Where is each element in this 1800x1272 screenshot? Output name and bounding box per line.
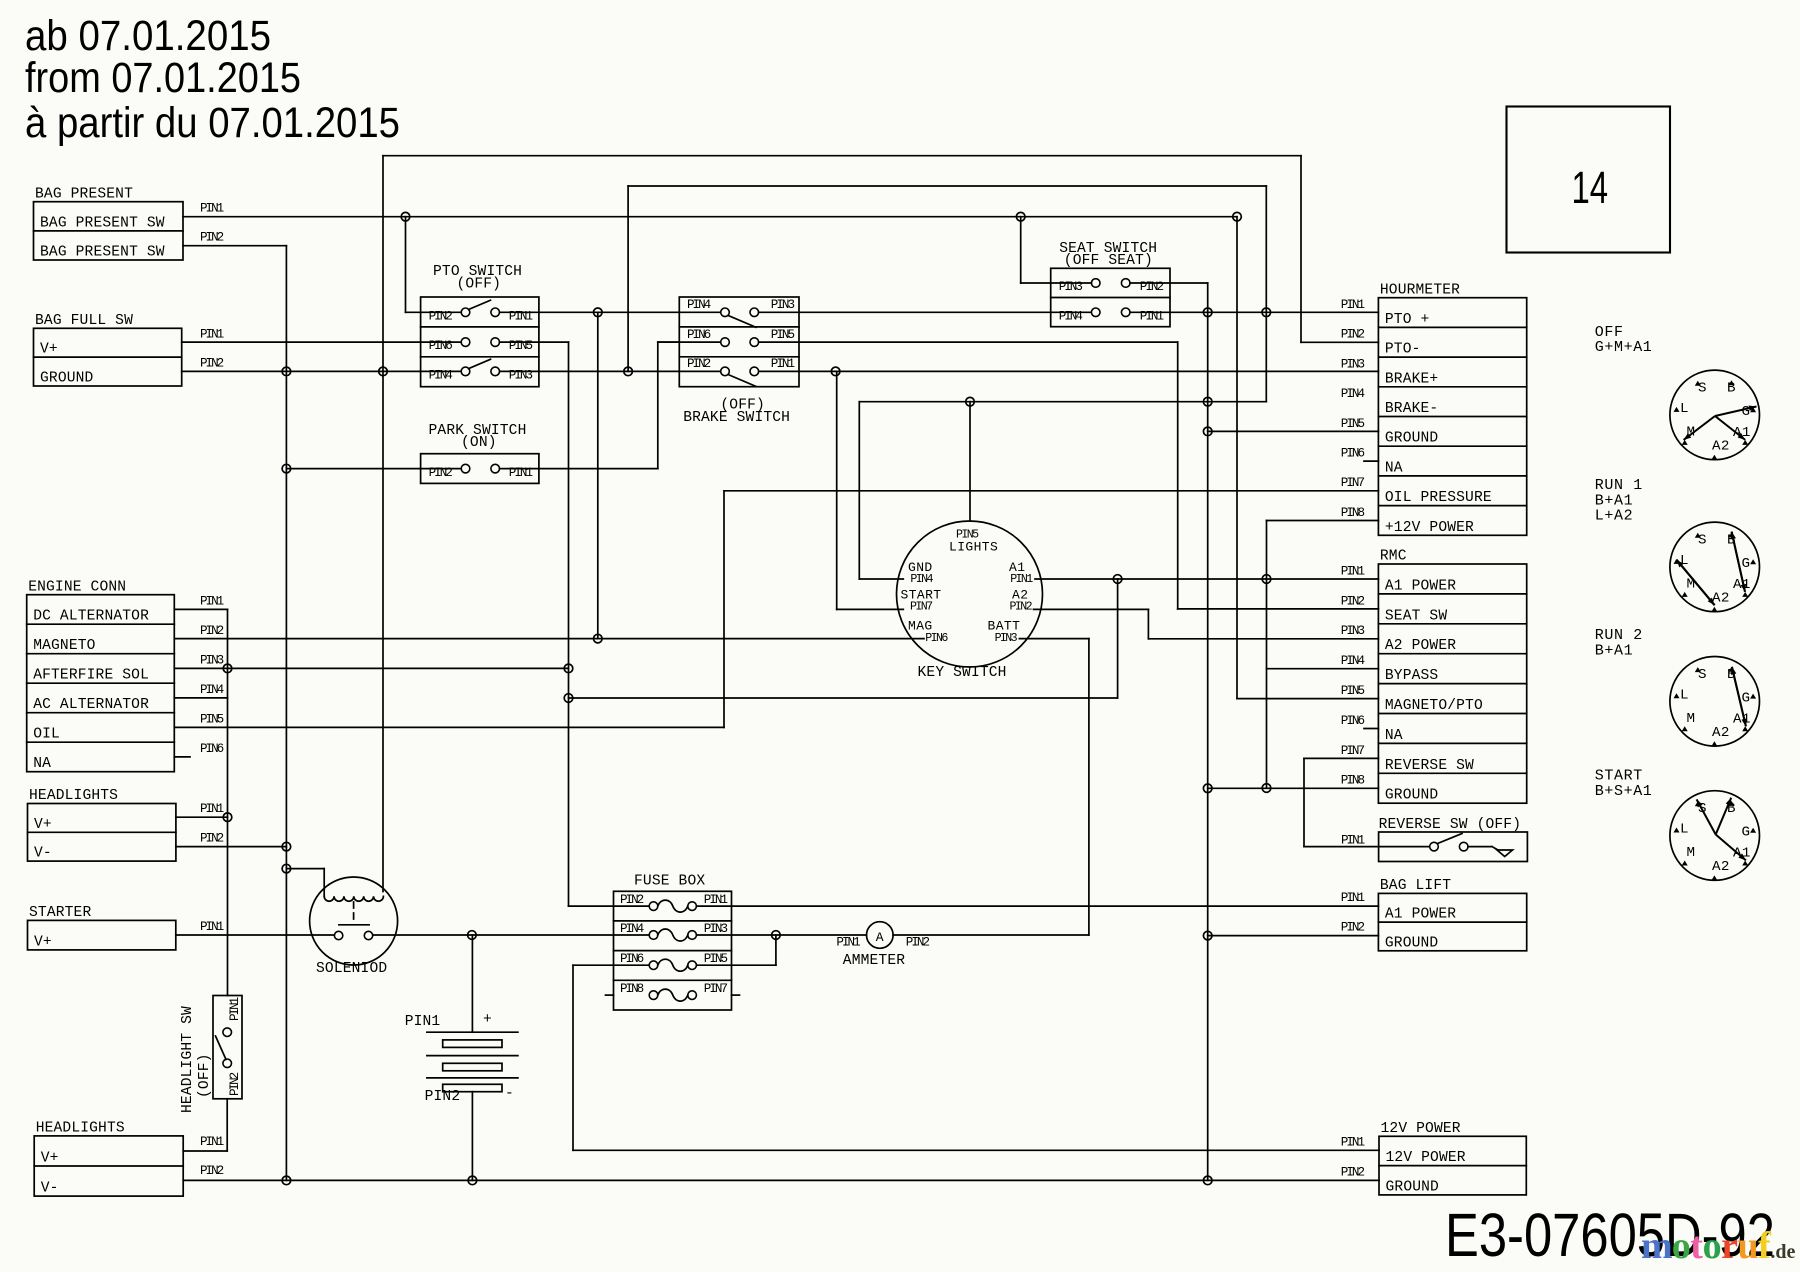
svg-text:REVERSE SW: REVERSE SW bbox=[1385, 758, 1474, 774]
svg-text:G: G bbox=[1742, 825, 1751, 841]
svg-text:A2: A2 bbox=[1712, 439, 1730, 455]
contact PTO row3 PIN4-PIN3 bbox=[461, 367, 470, 376]
svg-text:+12V POWER: +12V POWER bbox=[1385, 520, 1474, 536]
svg-text:HEADLIGHT SW: HEADLIGHT SW bbox=[180, 1006, 196, 1113]
svg-text:M: M bbox=[1687, 711, 1696, 727]
svg-text:12V POWER: 12V POWER bbox=[1386, 1150, 1466, 1166]
svg-text:t: t bbox=[1690, 1225, 1703, 1267]
battery plates bbox=[427, 1031, 518, 1033]
solenoid contact right bbox=[364, 931, 372, 939]
svg-text:PIN1: PIN1 bbox=[200, 202, 224, 216]
svg-text:PIN2: PIN2 bbox=[620, 893, 644, 907]
svg-text:PIN4: PIN4 bbox=[687, 298, 711, 312]
ignition diagram OFF circle bbox=[1670, 370, 1760, 460]
wire solenoid feed from ground bus bbox=[286, 868, 324, 870]
connector BAG PRESENT bbox=[34, 202, 184, 260]
wire ENGINE PIN5 OIL bbox=[174, 726, 724, 728]
wire ground line PTO PIN3 to BRAKE PIN2 bbox=[500, 370, 721, 372]
svg-text:GROUND: GROUND bbox=[1385, 788, 1439, 804]
wire BRAKE PIN5 to RMC SEAT SW bbox=[759, 341, 1178, 343]
svg-text:PIN2: PIN2 bbox=[1341, 328, 1365, 342]
wire HOURMETER +12V POWER bbox=[1267, 520, 1379, 522]
svg-text:PIN4: PIN4 bbox=[910, 573, 933, 586]
fuse F2 PIN4-PIN3 bbox=[649, 931, 658, 940]
svg-text:PIN1: PIN1 bbox=[200, 1135, 224, 1149]
ignition diagram RUN 2 circle bbox=[1670, 657, 1760, 747]
wire OIL to HOURMETER OIL PRESSURE bbox=[724, 490, 1378, 492]
svg-text:A1 POWER: A1 POWER bbox=[1385, 578, 1456, 594]
svg-text:M: M bbox=[1687, 576, 1696, 592]
junction ground bus on PTO+ wire bbox=[1203, 308, 1212, 317]
svg-text:PIN2: PIN2 bbox=[906, 935, 930, 949]
fuse box bbox=[614, 891, 732, 1010]
svg-text:PIN6: PIN6 bbox=[687, 328, 711, 342]
wire BAG PRESENT PIN2 bbox=[183, 245, 286, 247]
svg-text:PIN3: PIN3 bbox=[771, 298, 795, 312]
svg-text:PIN3: PIN3 bbox=[995, 632, 1018, 645]
svg-text:A: A bbox=[876, 930, 884, 945]
lever PTO row3 bbox=[469, 359, 491, 368]
solenoid contact left bbox=[334, 931, 342, 939]
svg-text:PIN8: PIN8 bbox=[1341, 506, 1365, 520]
junction +12V vertical on A1 wire bbox=[1262, 575, 1271, 584]
svg-text:ENGINE CONN: ENGINE CONN bbox=[28, 579, 126, 595]
svg-text:PIN4: PIN4 bbox=[620, 922, 644, 936]
svg-text:o: o bbox=[1703, 1225, 1722, 1267]
junction charge bus headlights PIN1 bbox=[223, 813, 232, 822]
svg-text:r: r bbox=[1721, 1225, 1738, 1267]
wire RMC MAGNETO/PTO from rail bbox=[1236, 217, 1238, 699]
junction battery positive tap bbox=[468, 931, 477, 940]
svg-text:PIN6: PIN6 bbox=[925, 632, 948, 645]
svg-text:PIN3: PIN3 bbox=[1341, 624, 1365, 638]
wire rail1 right vertical to HOURMETER PTO- bbox=[1300, 156, 1302, 343]
wire key START PIN7 bbox=[837, 608, 904, 610]
svg-text:o: o bbox=[1672, 1225, 1691, 1267]
svg-text:à partir du 07.01.2015: à partir du 07.01.2015 bbox=[25, 100, 400, 147]
wire RMC NA stub bbox=[1364, 728, 1378, 730]
contact BRAKE row3 PIN2-PIN1 bbox=[721, 367, 730, 376]
svg-text:BRAKE-: BRAKE- bbox=[1385, 401, 1438, 417]
svg-text:PTO +: PTO + bbox=[1385, 312, 1430, 328]
connector ENGINE CONN bbox=[27, 595, 175, 772]
svg-text:from 07.01.2015: from 07.01.2015 bbox=[25, 55, 301, 102]
wire fuse PIN1 to BAG LIFT A1 POWER bbox=[696, 905, 1378, 907]
svg-text:BAG PRESENT: BAG PRESENT bbox=[35, 186, 133, 202]
junction fuse PIN5 riser bbox=[772, 931, 781, 940]
wire key GND PIN4 bbox=[859, 578, 903, 580]
svg-text:PIN2: PIN2 bbox=[200, 231, 224, 245]
svg-text:PIN5: PIN5 bbox=[704, 952, 728, 966]
wire ground bus x286 bbox=[285, 246, 287, 1181]
svg-text:PIN5: PIN5 bbox=[1341, 684, 1365, 698]
wire fuse PIN3 to ammeter bbox=[696, 934, 866, 936]
wire HEADLIGHTS bottom PIN2 ground line bbox=[183, 1179, 1379, 1181]
svg-text:BAG FULL SW: BAG FULL SW bbox=[35, 313, 133, 329]
switch HEADLIGHT SW bbox=[213, 996, 242, 1099]
svg-text:PIN7: PIN7 bbox=[704, 982, 728, 996]
wire PTO PIN2 up to rail bbox=[406, 311, 462, 313]
wire BRAKE row2 left from park riser bbox=[658, 341, 721, 343]
svg-text:PIN6: PIN6 bbox=[429, 339, 453, 353]
ignition START contact lines bbox=[1697, 799, 1716, 834]
wire ground line from BAG FULL PIN2 bbox=[182, 370, 462, 372]
junction ground bus RMC ground bbox=[1203, 784, 1212, 793]
contact PTO row2 PIN6-PIN5 bbox=[461, 338, 470, 347]
svg-text:LIGHTS: LIGHTS bbox=[949, 539, 998, 554]
junction ground bus 12V ground bbox=[1203, 1176, 1212, 1185]
svg-text:GROUND: GROUND bbox=[1385, 935, 1439, 951]
junction key START vertical on ground line bbox=[831, 367, 840, 376]
svg-text:BAG PRESENT SW: BAG PRESENT SW bbox=[40, 215, 165, 231]
junction ground bus solenoid feed bbox=[282, 864, 291, 873]
svg-text:OIL: OIL bbox=[33, 727, 60, 743]
svg-text:V+: V+ bbox=[41, 1151, 59, 1167]
junction ground bus end bbox=[282, 1176, 291, 1185]
wire ENGINE PIN6 NA stub bbox=[174, 756, 190, 758]
junction afterfire wire to fuse feed vertical bbox=[564, 664, 573, 673]
lever BRAKE row1 bbox=[728, 316, 756, 328]
svg-text:V-: V- bbox=[34, 846, 52, 862]
svg-text:PIN1: PIN1 bbox=[1341, 564, 1365, 578]
svg-text:PIN3: PIN3 bbox=[704, 922, 728, 936]
svg-text:+: + bbox=[483, 1012, 492, 1028]
fuse PIN8 stub bbox=[606, 994, 614, 996]
svg-text:PIN1: PIN1 bbox=[771, 357, 795, 371]
solenoid coil left riser bbox=[323, 869, 325, 897]
wire BAG LIFT GROUND bbox=[1208, 935, 1379, 937]
svg-text:PIN1: PIN1 bbox=[200, 920, 224, 934]
svg-text:PIN2: PIN2 bbox=[425, 1089, 461, 1105]
junction key A1 to A1 bus bbox=[1113, 575, 1122, 584]
svg-text:STARTER: STARTER bbox=[29, 905, 91, 921]
junction ground bus to park switch bbox=[282, 464, 291, 473]
svg-text:PIN1: PIN1 bbox=[704, 893, 728, 907]
wire HOURMETER GROUND from bus bbox=[1208, 430, 1379, 432]
connector 12V POWER bbox=[1379, 1136, 1526, 1195]
svg-text:PIN1: PIN1 bbox=[1341, 834, 1365, 848]
svg-text:V-: V- bbox=[41, 1181, 59, 1197]
svg-text:S: S bbox=[1698, 381, 1707, 397]
svg-text:S: S bbox=[1698, 533, 1707, 549]
junction ground bus on brake- wire bbox=[1203, 397, 1212, 406]
wire REVERSE SW to ground symbol bbox=[1468, 846, 1492, 848]
junction charge bus on afterfire wire bbox=[223, 664, 232, 673]
wire HOURMETER NA stub bbox=[1364, 460, 1378, 462]
svg-text:B+S+A1: B+S+A1 bbox=[1595, 783, 1653, 800]
svg-text:GROUND: GROUND bbox=[40, 371, 94, 387]
svg-text:PIN6: PIN6 bbox=[200, 742, 224, 756]
svg-text:B+A1: B+A1 bbox=[1595, 642, 1633, 659]
svg-text:PIN1: PIN1 bbox=[1010, 573, 1033, 586]
battery negative wire bbox=[471, 1092, 473, 1181]
lever PTO row1 bbox=[469, 300, 491, 309]
svg-text:L+A2: L+A2 bbox=[1595, 508, 1633, 525]
svg-text:AC ALTERNATOR: AC ALTERNATOR bbox=[33, 697, 149, 713]
junction A1 bus to fuse feed bbox=[564, 694, 573, 703]
svg-text:RUN 2: RUN 2 bbox=[1595, 627, 1643, 644]
junction ground bus hourmeter GROUND bbox=[1203, 427, 1212, 436]
svg-text:PIN5: PIN5 bbox=[1341, 417, 1365, 431]
switch BRAKE SWITCH bbox=[679, 297, 799, 387]
wire key A1 PIN1 to RMC A1 POWER bbox=[1035, 578, 1378, 580]
svg-text:START: START bbox=[1595, 768, 1643, 785]
wire BRAKE PIN3 to SEAT PIN4 bbox=[759, 311, 1092, 313]
wire fuse PIN6 to 12V POWER bbox=[573, 964, 649, 966]
svg-text:14: 14 bbox=[1572, 162, 1609, 213]
wire PTO PIN1 to BRAKE PIN4 bbox=[500, 311, 721, 313]
switch PTO SWITCH bbox=[421, 297, 539, 387]
svg-text:.de: .de bbox=[1770, 1241, 1795, 1263]
svg-text:SOLENIOD: SOLENIOD bbox=[316, 961, 387, 977]
svg-text:PIN6: PIN6 bbox=[620, 952, 644, 966]
svg-text:PIN1: PIN1 bbox=[836, 935, 860, 949]
svg-text:PTO-: PTO- bbox=[1385, 342, 1421, 358]
svg-text:GROUND: GROUND bbox=[1386, 1179, 1440, 1195]
svg-text:NA: NA bbox=[1385, 460, 1403, 476]
svg-text:PIN2: PIN2 bbox=[200, 1164, 224, 1178]
connector RMC bbox=[1378, 564, 1526, 803]
svg-text:PIN4: PIN4 bbox=[429, 369, 453, 383]
wire RMC REVERSE SW bbox=[1304, 757, 1378, 759]
wire SEAT PIN2 to ground bus corner bbox=[1130, 282, 1208, 284]
wire top rail 2 bbox=[628, 185, 1266, 187]
wire ground line BRAKE PIN1 to HOURMETER BRAKE+ bbox=[759, 370, 1379, 372]
wire rail2 right vertical bbox=[1265, 186, 1267, 402]
svg-text:PIN4: PIN4 bbox=[1341, 654, 1365, 668]
svg-text:PIN1: PIN1 bbox=[1341, 298, 1365, 312]
junction PTO PIN1 tap to magneto line bbox=[594, 308, 603, 317]
wire ENGINE PIN2 MAGNETO to key switch MAG bbox=[174, 638, 924, 640]
wire A1 bus vertical bbox=[1117, 579, 1119, 698]
contact SEAT row2 PIN4-PIN1 bbox=[1091, 308, 1100, 317]
junction rail1 vertical on ground line bbox=[379, 367, 388, 376]
wire RMC GROUND bbox=[1208, 787, 1379, 789]
wire A1 bus horizontal bbox=[569, 697, 1118, 699]
svg-text:MAGNETO/PTO: MAGNETO/PTO bbox=[1385, 698, 1483, 714]
svg-text:KEY SWITCH: KEY SWITCH bbox=[918, 665, 1007, 681]
fuse PIN7 stub bbox=[732, 994, 740, 996]
contact BRAKE row1 PIN4-PIN3 bbox=[721, 308, 730, 317]
ignition OFF contact lines bbox=[1715, 407, 1757, 417]
wire PARK PIN1 up to BRAKE PIN6 bbox=[500, 468, 658, 470]
svg-text:AMMETER: AMMETER bbox=[843, 953, 905, 969]
svg-text:PIN2: PIN2 bbox=[1341, 921, 1365, 935]
svg-text:PIN2: PIN2 bbox=[1341, 594, 1365, 608]
ignition RUN 1 contact lines bbox=[1677, 560, 1715, 605]
svg-text:PIN4: PIN4 bbox=[200, 683, 224, 697]
fuse F1 PIN2-PIN1 bbox=[649, 902, 658, 911]
svg-text:PIN1: PIN1 bbox=[200, 594, 224, 608]
contact HEADLIGHT SW top bbox=[223, 1028, 232, 1037]
svg-text:PIN8: PIN8 bbox=[620, 982, 644, 996]
svg-text:PIN1: PIN1 bbox=[228, 997, 242, 1021]
svg-text:RMC: RMC bbox=[1380, 549, 1407, 565]
contact SEAT row1 PIN3-PIN2 bbox=[1091, 279, 1100, 288]
svg-text:A1 POWER: A1 POWER bbox=[1385, 907, 1456, 923]
svg-text:PIN4: PIN4 bbox=[1059, 310, 1083, 324]
junction +12V vertical on RMC ground bbox=[1262, 784, 1271, 793]
connector BAG FULL SW bbox=[34, 328, 182, 386]
fuse F3 PIN6-PIN5 bbox=[649, 961, 658, 970]
connector HOURMETER bbox=[1378, 298, 1526, 536]
junction battery negative bbox=[468, 1176, 477, 1185]
svg-text:PIN5: PIN5 bbox=[200, 712, 224, 726]
sheet number box 14 bbox=[1507, 107, 1671, 253]
junction ground bus bag lift ground bbox=[1203, 931, 1212, 940]
svg-text:V+: V+ bbox=[34, 817, 52, 833]
svg-text:PIN1: PIN1 bbox=[200, 328, 224, 342]
svg-text:NA: NA bbox=[33, 756, 51, 772]
svg-text:M: M bbox=[1687, 845, 1696, 861]
wire fuse PIN2 feed bbox=[569, 905, 650, 907]
key switch body bbox=[897, 521, 1043, 667]
battery positive wire bbox=[471, 935, 473, 1032]
connector HEADLIGHTS bottom bbox=[34, 1136, 183, 1196]
ignition diagram RUN 1 circle bbox=[1670, 522, 1760, 612]
svg-text:DC ALTERNATOR: DC ALTERNATOR bbox=[33, 609, 149, 625]
svg-text:PIN7: PIN7 bbox=[910, 601, 933, 614]
svg-text:BAG PRESENT SW: BAG PRESENT SW bbox=[40, 245, 165, 261]
svg-text:(OFF SEAT): (OFF SEAT) bbox=[1064, 253, 1153, 269]
contact HEADLIGHT SW bottom bbox=[223, 1059, 232, 1068]
switch SEAT SWITCH bbox=[1051, 268, 1170, 326]
wire +12V vertical bbox=[1266, 521, 1268, 789]
solenoid body bbox=[310, 877, 398, 965]
svg-text:(ON): (ON) bbox=[461, 435, 497, 451]
svg-text:GROUND: GROUND bbox=[1385, 431, 1439, 447]
wire HEADLIGHT SW PIN2 down to headlights bbox=[226, 1099, 228, 1151]
svg-text:RUN 1: RUN 1 bbox=[1595, 477, 1643, 494]
wire REVERSE SW PIN1 bbox=[1304, 846, 1430, 848]
wire ENGINE PIN1 to charge bus bbox=[174, 608, 227, 610]
wire BAG PRESENT PIN1 rail bbox=[183, 216, 1237, 218]
ignition RUN 2 contact lines bbox=[1732, 667, 1746, 726]
wire fuse PIN5 riser bbox=[696, 964, 776, 966]
svg-text:PIN2: PIN2 bbox=[1341, 1165, 1365, 1179]
ammeter bbox=[867, 922, 894, 949]
svg-text:SEAT SW: SEAT SW bbox=[1385, 608, 1447, 624]
svg-text:ab 07.01.2015: ab 07.01.2015 bbox=[25, 13, 271, 60]
svg-text:G+M+A1: G+M+A1 bbox=[1595, 339, 1653, 356]
svg-text:PIN2: PIN2 bbox=[200, 832, 224, 846]
svg-text:PIN2: PIN2 bbox=[1010, 601, 1033, 614]
switch REVERSE SW (OFF) bbox=[1379, 832, 1528, 862]
svg-text:PIN4: PIN4 bbox=[1341, 387, 1365, 401]
svg-text:MAGNETO: MAGNETO bbox=[33, 638, 95, 654]
svg-text:A2: A2 bbox=[1712, 859, 1730, 875]
connector HEADLIGHTS top bbox=[28, 804, 176, 862]
svg-text:L: L bbox=[1680, 822, 1689, 838]
wire vertical PTO PIN1 tap down to magneto line bbox=[597, 312, 599, 638]
svg-text:PIN3: PIN3 bbox=[1341, 357, 1365, 371]
svg-text:HEADLIGHTS: HEADLIGHTS bbox=[29, 788, 118, 804]
lever REVERSE SW bbox=[1438, 834, 1463, 844]
svg-text:L: L bbox=[1680, 401, 1689, 417]
junction ground bus on ground line bbox=[282, 367, 291, 376]
svg-text:BYPASS: BYPASS bbox=[1385, 668, 1439, 684]
solenoid coil bbox=[324, 896, 383, 901]
svg-text:G: G bbox=[1742, 690, 1751, 706]
svg-text:BRAKE SWITCH: BRAKE SWITCH bbox=[683, 410, 790, 426]
wire ammeter to key BATT riser bbox=[893, 934, 1089, 936]
svg-text:PIN2: PIN2 bbox=[228, 1072, 242, 1096]
svg-text:A2 POWER: A2 POWER bbox=[1385, 638, 1456, 654]
lever HEADLIGHT SW bbox=[216, 1036, 227, 1060]
wire BAG FULL PIN1 to PTO switch PIN6 bbox=[182, 341, 462, 343]
svg-text:(OFF): (OFF) bbox=[457, 277, 502, 293]
svg-text:L: L bbox=[1680, 687, 1689, 703]
svg-text:PIN6: PIN6 bbox=[1341, 447, 1365, 461]
connector STARTER bbox=[28, 920, 176, 950]
wire key PIN5 LIGHTS up bbox=[969, 402, 971, 521]
svg-text:PIN1: PIN1 bbox=[405, 1014, 441, 1030]
svg-text:PIN2: PIN2 bbox=[687, 357, 711, 371]
wire PARK PIN2 from ground bus bbox=[286, 468, 461, 470]
junction ground bus headlights PIN2 bbox=[282, 842, 291, 851]
svg-text:S: S bbox=[1698, 667, 1707, 683]
svg-text:PIN1: PIN1 bbox=[1341, 891, 1365, 905]
wire top rail 1 bbox=[383, 155, 1301, 157]
wire key A2 PIN2 to RMC A2 POWER bbox=[1034, 608, 1149, 610]
connector BAG LIFT bbox=[1378, 893, 1526, 950]
wire ENGINE PIN3 AFTERFIRE bbox=[174, 667, 568, 669]
contact PTO row1 PIN2-PIN1 bbox=[461, 308, 470, 317]
wire PTO PIN5 corner down bbox=[500, 341, 569, 343]
wire HEADLIGHTS top PIN2 bbox=[176, 846, 287, 848]
junction seat PIN3 tap on rail bbox=[1016, 212, 1025, 221]
svg-text:A2: A2 bbox=[1712, 725, 1730, 741]
svg-text:m: m bbox=[1641, 1225, 1673, 1267]
fuse F4 PIN8-PIN7 bbox=[649, 991, 658, 1000]
contact PARK PIN2-PIN1 bbox=[461, 464, 470, 473]
svg-text:u: u bbox=[1738, 1225, 1759, 1267]
svg-text:V+: V+ bbox=[40, 342, 58, 358]
svg-text:AFTERFIRE SOL: AFTERFIRE SOL bbox=[33, 668, 149, 684]
svg-text:PIN5: PIN5 bbox=[771, 328, 795, 342]
contact REVERSE SW bbox=[1430, 842, 1439, 851]
solenoid plunger dashed link bbox=[353, 902, 355, 922]
lever BRAKE row3 bbox=[728, 375, 756, 387]
svg-text:A1: A1 bbox=[1733, 846, 1751, 862]
wire key BATT horizontal bbox=[1019, 638, 1089, 640]
svg-text:-: - bbox=[505, 1086, 514, 1102]
svg-text:V+: V+ bbox=[34, 934, 52, 950]
wire charge bus x227 bbox=[227, 609, 229, 995]
svg-text:FUSE BOX: FUSE BOX bbox=[634, 873, 705, 889]
junction rail to RMC MAGNETO/PTO vertical bbox=[1233, 212, 1242, 221]
svg-text:PIN8: PIN8 bbox=[1341, 774, 1365, 788]
svg-text:PIN6: PIN6 bbox=[1341, 714, 1365, 728]
svg-text:PIN7: PIN7 bbox=[1341, 744, 1365, 758]
wire solenoid to fuse box bbox=[374, 934, 650, 936]
wire HEADLIGHTS top PIN1 bbox=[176, 816, 228, 818]
junction PTO tap on magneto wire bbox=[594, 634, 603, 643]
junction key LIGHTS on brake- wire bbox=[966, 397, 975, 406]
svg-text:G: G bbox=[1742, 556, 1751, 572]
svg-text:PIN2: PIN2 bbox=[200, 624, 224, 638]
wire ground bus x1207 bbox=[1207, 283, 1209, 1180]
ignition diagram START circle bbox=[1670, 791, 1760, 881]
svg-text:NA: NA bbox=[1385, 728, 1403, 744]
svg-text:PIN7: PIN7 bbox=[1341, 476, 1365, 490]
svg-text:PIN3: PIN3 bbox=[200, 653, 224, 667]
wire ENGINE PIN4 AC ALTERNATOR stub bbox=[174, 697, 227, 699]
junction rail2 vertical on PTO+ wire bbox=[1262, 308, 1271, 317]
solenoid plunger bar bbox=[339, 924, 369, 926]
svg-text:PIN1: PIN1 bbox=[200, 802, 224, 816]
junction PTO PIN2 tap on bag-present rail bbox=[401, 212, 410, 221]
